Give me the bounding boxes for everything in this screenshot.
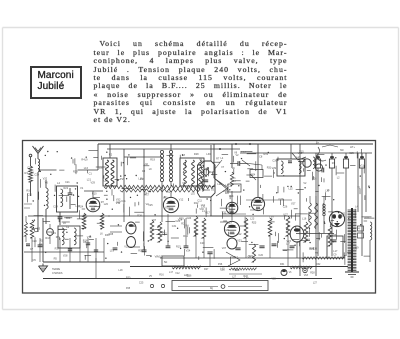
svg-text:C5: C5: [33, 259, 37, 262]
svg-text:V18: V18: [201, 161, 206, 164]
svg-text:V32: V32: [43, 178, 48, 181]
svg-text:R28: R28: [209, 171, 214, 174]
svg-text:L17: L17: [169, 271, 174, 274]
svg-text:C28: C28: [66, 217, 71, 220]
svg-text:C12: C12: [162, 232, 167, 235]
svg-text:V1: V1: [80, 186, 84, 190]
svg-text:C21: C21: [65, 181, 70, 184]
svg-text:R7: R7: [216, 158, 220, 161]
svg-text:R28: R28: [109, 233, 114, 236]
svg-text:R23: R23: [252, 222, 257, 225]
svg-text:R5: R5: [37, 227, 41, 230]
svg-text:L32: L32: [144, 163, 149, 166]
svg-text:V27: V27: [283, 214, 288, 217]
svg-text:V24: V24: [186, 250, 191, 253]
svg-text:R18: R18: [305, 238, 310, 241]
svg-text:L18: L18: [226, 207, 231, 210]
svg-text:L10: L10: [325, 190, 330, 193]
svg-text:P2: P2: [120, 177, 124, 181]
svg-text:V27: V27: [291, 203, 296, 206]
svg-text:C2: C2: [66, 226, 70, 229]
svg-text:R16: R16: [159, 273, 164, 276]
svg-text:L16: L16: [84, 167, 89, 170]
svg-text:V23: V23: [237, 239, 242, 242]
svg-text:L18: L18: [119, 269, 124, 272]
svg-text:P26: P26: [218, 263, 223, 266]
svg-text:V30: V30: [298, 152, 303, 155]
svg-text:C26: C26: [272, 159, 277, 162]
svg-text:V28: V28: [332, 234, 337, 237]
svg-text:V1: V1: [289, 271, 293, 274]
svg-text:L23: L23: [250, 217, 255, 220]
svg-text:HT+: HT+: [350, 145, 355, 149]
svg-text:R28: R28: [310, 272, 315, 275]
svg-text:5Ω: 5Ω: [164, 261, 167, 264]
svg-text:L6: L6: [63, 222, 66, 225]
svg-text:L2: L2: [337, 176, 340, 179]
svg-text:V18: V18: [304, 274, 309, 277]
svg-text:L6: L6: [100, 232, 103, 235]
svg-text:V27: V27: [152, 219, 157, 222]
svg-text:C27: C27: [116, 201, 121, 204]
svg-text:L20: L20: [232, 180, 237, 183]
svg-text:L12: L12: [221, 267, 226, 270]
svg-text:R28: R28: [194, 153, 199, 156]
svg-text:L20: L20: [104, 203, 109, 206]
svg-text:R31: R31: [264, 153, 269, 156]
svg-text:C26: C26: [339, 215, 344, 218]
svg-text:P28: P28: [126, 288, 131, 290]
svg-text:V25: V25: [148, 204, 153, 207]
svg-text:C11: C11: [28, 193, 33, 196]
svg-text:L27: L27: [286, 243, 291, 246]
svg-text:L17: L17: [270, 217, 275, 220]
svg-text:R32: R32: [39, 244, 44, 247]
svg-text:L16: L16: [302, 218, 307, 221]
svg-text:C20: C20: [279, 198, 284, 201]
svg-text:C14: C14: [53, 205, 58, 208]
svg-text:V2: V2: [303, 182, 307, 185]
svg-text:R7: R7: [56, 236, 60, 239]
svg-text:V28: V28: [63, 255, 68, 258]
svg-text:C29: C29: [34, 173, 39, 176]
svg-text:L13: L13: [223, 190, 228, 193]
svg-text:R10: R10: [26, 190, 31, 193]
svg-text:V31: V31: [222, 211, 227, 214]
svg-text:L22: L22: [237, 233, 242, 236]
svg-text:L27: L27: [313, 282, 318, 285]
svg-text:TERRE: TERRE: [52, 268, 61, 271]
svg-text:R2: R2: [109, 153, 113, 156]
svg-text:L21: L21: [297, 156, 302, 159]
svg-text:C14: C14: [170, 201, 175, 204]
svg-text:C20: C20: [32, 240, 37, 243]
svg-text:V23: V23: [163, 197, 168, 200]
svg-text:C22: C22: [248, 255, 253, 258]
svg-text:L31: L31: [365, 216, 370, 219]
svg-text:R22: R22: [64, 187, 69, 190]
svg-text:C20: C20: [258, 254, 263, 257]
svg-text:C1: C1: [89, 173, 93, 176]
svg-text:V29: V29: [91, 182, 96, 185]
svg-text:L19: L19: [110, 250, 115, 253]
svg-text:C26: C26: [283, 206, 288, 209]
svg-text:C3: C3: [142, 170, 146, 173]
svg-text:V28: V28: [224, 229, 229, 232]
svg-text:R15: R15: [176, 246, 181, 249]
svg-text:L6: L6: [211, 188, 214, 191]
svg-text:R16: R16: [45, 237, 50, 240]
svg-text:C25: C25: [349, 152, 354, 155]
svg-text:R26: R26: [137, 214, 142, 217]
svg-text:C13: C13: [230, 256, 235, 259]
svg-text:R17: R17: [205, 212, 210, 215]
svg-text:L20: L20: [217, 183, 222, 186]
svg-text:V2: V2: [236, 154, 240, 157]
svg-text:V5: V5: [149, 275, 153, 278]
svg-text:V30: V30: [199, 208, 204, 211]
svg-text:L27: L27: [232, 276, 237, 279]
svg-text:L23: L23: [245, 277, 250, 280]
svg-text:L30: L30: [206, 153, 211, 156]
svg-text:L21: L21: [104, 179, 109, 182]
svg-text:R24: R24: [79, 206, 84, 209]
svg-text:Rg: Rg: [210, 288, 214, 290]
svg-text:R29: R29: [179, 218, 184, 221]
svg-text:C25: C25: [139, 282, 144, 285]
svg-text:C9: C9: [333, 253, 337, 256]
svg-text:R18: R18: [83, 240, 88, 243]
svg-text:V1: V1: [357, 187, 361, 190]
svg-text:L21: L21: [87, 179, 92, 182]
svg-text:R5: R5: [54, 258, 58, 261]
svg-text:V4: V4: [357, 228, 361, 231]
svg-text:R14: R14: [183, 235, 188, 238]
svg-text:L15: L15: [138, 178, 143, 181]
svg-text:V12: V12: [175, 272, 180, 275]
svg-text:V21: V21: [124, 246, 129, 249]
svg-text:V29: V29: [272, 167, 277, 170]
svg-text:R28: R28: [229, 211, 234, 214]
svg-text:C8: C8: [259, 156, 263, 159]
svg-text:R31: R31: [267, 166, 272, 169]
svg-text:V23: V23: [165, 207, 170, 210]
svg-text:C24: C24: [27, 167, 32, 170]
svg-text:CHASSIS: CHASSIS: [52, 272, 63, 275]
svg-text:L4: L4: [57, 181, 60, 185]
svg-text:L4: L4: [221, 157, 224, 160]
svg-text:R30: R30: [126, 276, 131, 279]
svg-text:V7: V7: [221, 166, 225, 169]
svg-text:R1: R1: [233, 177, 237, 180]
svg-text:V24: V24: [229, 195, 234, 198]
svg-text:R29: R29: [73, 170, 78, 173]
svg-text:V27: V27: [222, 247, 227, 250]
svg-text:V15: V15: [271, 278, 276, 281]
svg-text:R1: R1: [25, 171, 29, 175]
svg-text:R27: R27: [204, 268, 209, 271]
svg-text:L9: L9: [85, 159, 88, 162]
svg-text:L6: L6: [232, 167, 235, 170]
svg-text:R29: R29: [309, 248, 314, 251]
svg-text:R4: R4: [185, 225, 189, 228]
svg-text:V10: V10: [87, 236, 92, 239]
svg-text:L17: L17: [228, 222, 233, 225]
svg-text:R30: R30: [138, 250, 143, 253]
svg-text:V6: V6: [45, 182, 49, 185]
svg-text:V12: V12: [179, 198, 184, 201]
svg-text:C11: C11: [121, 200, 126, 203]
svg-text:C29: C29: [167, 191, 172, 194]
svg-text:L9: L9: [149, 168, 152, 171]
svg-text:V11: V11: [360, 165, 365, 168]
svg-text:C24: C24: [187, 217, 192, 220]
svg-text:C20: C20: [200, 242, 205, 245]
svg-text:C16: C16: [187, 275, 192, 278]
svg-text:L10: L10: [191, 193, 196, 196]
svg-text:R19: R19: [150, 158, 155, 161]
svg-text:C7: C7: [30, 248, 34, 251]
svg-text:R10: R10: [92, 193, 97, 196]
svg-text:C26: C26: [312, 178, 317, 181]
svg-text:R31: R31: [280, 263, 285, 266]
svg-text:C21: C21: [51, 232, 56, 235]
svg-text:R17: R17: [55, 248, 60, 251]
svg-text:C14: C14: [150, 229, 155, 232]
svg-text:L32: L32: [289, 188, 294, 191]
svg-text:SW: SW: [340, 150, 345, 152]
svg-text:C12: C12: [241, 151, 246, 154]
svg-text:C31: C31: [172, 225, 177, 228]
svg-text:R32: R32: [316, 263, 321, 266]
svg-text:L18: L18: [99, 166, 104, 169]
svg-text:C11: C11: [197, 200, 202, 203]
svg-text:L28: L28: [235, 269, 240, 272]
svg-text:V10: V10: [158, 255, 163, 258]
